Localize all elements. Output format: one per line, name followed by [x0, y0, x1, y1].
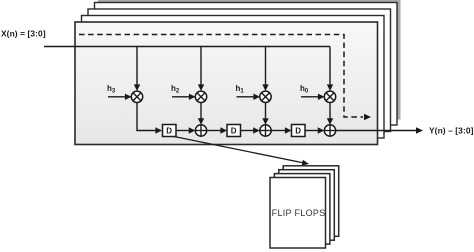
wire h0 to multiplier M0: [301, 94, 325, 100]
svg-text:D: D: [166, 127, 172, 136]
flip-flop card 1 (front): [270, 178, 326, 249]
wire multiplier M0 to adder A3: [327, 103, 333, 125]
multiplier M0: [324, 91, 335, 102]
wire h2 to multiplier M2: [172, 94, 196, 100]
wire multiplier M3 to delay D1: [137, 103, 162, 134]
filter card 1 (front): [75, 22, 378, 145]
svg-text:X(n) = [3:0]: X(n) = [3:0]: [1, 29, 46, 39]
filter card stack shadow: [98, 0, 401, 120]
svg-text:Y(n) – [3:0]: Y(n) – [3:0]: [429, 126, 474, 136]
multiplier M2: [195, 91, 206, 102]
delay D2: [227, 125, 241, 137]
flip-flop card 3: [279, 170, 335, 241]
svg-text:FLIP FLOPS: FLIP FLOPS: [272, 208, 326, 218]
wire delay D1 to flip-flop stack: [174, 137, 309, 166]
wire delay D3 to adder A3: [305, 127, 324, 133]
wire h3 to multiplier M3: [108, 94, 132, 100]
wire input to multiplier M1: [262, 47, 268, 92]
multiplier M3: [131, 91, 142, 102]
adder A2: [260, 125, 271, 136]
wire delay D1 to adder A1: [176, 127, 195, 133]
output wire Y(n): [336, 127, 423, 133]
wire h1 to multiplier M1: [237, 94, 261, 100]
wire adder A1 to delay D2: [207, 127, 227, 133]
dashed bypass wire: [79, 35, 371, 121]
input wire X(n): [44, 46, 330, 48]
wire multiplier M2 to adder A1: [198, 103, 204, 125]
wire input to multiplier M3: [134, 47, 140, 92]
filter card 2: [82, 16, 385, 139]
filter card 3: [88, 9, 391, 132]
flip-flop card 4 (back): [283, 166, 339, 237]
adder A1: [195, 125, 206, 136]
wire input to multiplier M2: [198, 47, 204, 92]
wire multiplier M1 to adder A2: [262, 103, 268, 125]
filter card 4 (back): [95, 3, 398, 126]
adder A3: [324, 125, 335, 136]
svg-text:D: D: [231, 127, 237, 136]
delay D3: [292, 125, 306, 137]
wire input to multiplier M0: [327, 47, 333, 92]
flip-flop card 2: [274, 174, 330, 245]
delay D1: [163, 125, 177, 137]
svg-text:D: D: [295, 127, 301, 136]
wire adder A2 to delay D3: [271, 127, 291, 133]
wire delay D2 to adder A2: [241, 127, 260, 133]
multiplier M1: [260, 91, 271, 102]
